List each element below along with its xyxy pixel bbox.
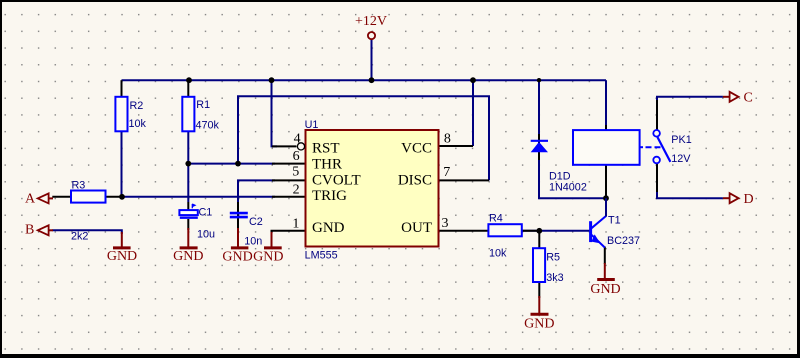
svg-text:6: 6	[293, 149, 300, 164]
svg-text:GND: GND	[524, 316, 554, 331]
svg-text:PK1: PK1	[671, 134, 691, 146]
pin R2 top	[121, 80, 123, 97]
svg-text:10n: 10n	[244, 236, 262, 248]
svg-text:GND: GND	[107, 249, 137, 264]
svg-text:GND: GND	[312, 220, 345, 236]
svg-text:RST: RST	[312, 140, 340, 156]
wire THR line	[188, 163, 275, 165]
pin R3 right	[106, 196, 123, 198]
ground U1 pin1	[264, 232, 282, 248]
svg-text:2: 2	[293, 183, 300, 198]
svg-text:GND: GND	[590, 282, 620, 297]
svg-text:C1: C1	[199, 207, 213, 219]
junction node bus-RST	[269, 77, 275, 83]
resistor R2	[115, 97, 127, 132]
pin relay coil bottom	[605, 165, 607, 198]
wire relay coil top	[605, 80, 607, 125]
svg-text:R3: R3	[72, 180, 86, 192]
pin U1 RST (4)	[272, 145, 297, 147]
svg-text:1: 1	[292, 217, 299, 232]
svg-text:C: C	[744, 91, 753, 106]
svg-text:5: 5	[292, 165, 299, 180]
resistor R1	[182, 97, 194, 132]
wire R2 bottom to TRIG node	[121, 131, 123, 197]
svg-text:R5: R5	[546, 252, 560, 264]
pin U1 DISC (7)	[439, 179, 490, 181]
pin switch top	[656, 100, 658, 130]
wire switch top to C port	[657, 97, 723, 129]
junction node bus-VCC	[470, 77, 476, 83]
resistor R5	[533, 248, 545, 282]
svg-text:THR: THR	[312, 156, 342, 172]
diode D1D	[531, 140, 548, 142]
svg-text:CVOLT: CVOLT	[312, 172, 361, 188]
ground C1	[180, 228, 198, 248]
wire RST riser	[272, 80, 278, 146]
wire DISC to THR riser	[238, 96, 489, 180]
wire switch bottom to D port	[657, 165, 723, 198]
pin C2 lead	[237, 202, 239, 230]
op-amp U1 LM555 body	[306, 130, 439, 247]
junction node bus-diode	[537, 78, 541, 82]
svg-text:D: D	[744, 192, 754, 207]
svg-text:GND: GND	[173, 249, 203, 264]
wire OUT to base	[522, 230, 590, 232]
svg-text:1N4002: 1N4002	[549, 182, 587, 194]
pin U1 THR (6)	[272, 163, 306, 165]
junction node bus-R1	[186, 77, 192, 83]
svg-text:VCC: VCC	[401, 140, 432, 156]
ground B	[113, 232, 131, 248]
pin switch bottom	[656, 164, 658, 193]
wire diode anode to collector node	[539, 158, 606, 198]
pin relay coil top	[605, 125, 607, 130]
pin R3 left	[52, 196, 71, 198]
svg-text:8: 8	[444, 131, 451, 146]
svg-text:3: 3	[442, 216, 449, 231]
ground C2	[231, 228, 249, 248]
pin U1 OUT (3)	[439, 230, 489, 232]
relay actuation dashed link	[640, 146, 643, 148]
pin R4 right to node	[522, 230, 540, 232]
svg-text:+12V: +12V	[355, 14, 387, 29]
relay PK1 coil box	[573, 130, 640, 165]
svg-text:U1: U1	[305, 119, 319, 131]
pin U1 VCC (8)	[439, 145, 474, 147]
RST inversion bubble	[297, 143, 304, 150]
junction node TRIG-R2	[119, 194, 125, 200]
capacitor C2	[230, 213, 248, 217]
svg-text:10k: 10k	[129, 118, 147, 130]
svg-text:10u: 10u	[197, 229, 215, 241]
pin R1 top	[187, 80, 189, 97]
svg-text:470k: 470k	[196, 120, 220, 132]
junction node bus +12V	[369, 77, 375, 83]
svg-text:TRIG: TRIG	[312, 188, 347, 204]
svg-text:R1: R1	[196, 99, 210, 111]
svg-text:GND: GND	[253, 249, 283, 264]
junction node THR-DISC	[235, 161, 241, 167]
svg-text:T1: T1	[608, 215, 621, 227]
ground R5	[531, 296, 549, 314]
pin R5 bottom	[538, 282, 540, 298]
svg-text:10k: 10k	[489, 248, 507, 260]
power port +12V	[368, 32, 375, 39]
pin diode lead	[538, 134, 540, 160]
svg-text:C2: C2	[249, 216, 263, 228]
pin U1 CVOLT (5)	[272, 179, 306, 181]
wire main +12V bus	[122, 79, 607, 81]
pin C1 bottom	[187, 219, 189, 230]
svg-text:B: B	[25, 223, 34, 238]
svg-text:DISC: DISC	[398, 172, 432, 188]
wire CVOLT to C2	[238, 180, 275, 202]
svg-text:R4: R4	[489, 213, 503, 225]
sheet border frame	[0, 0, 800, 2]
capacitor C1 (polarized)	[179, 210, 197, 215]
wire R1 bottom to THR node and C1	[187, 131, 189, 202]
svg-text:GND: GND	[222, 249, 252, 264]
pin U1 GND (1)	[272, 231, 306, 233]
relay switch contacts	[653, 130, 660, 137]
wire +12V drop	[371, 39, 373, 80]
transistor T1 BC237	[591, 216, 606, 248]
pin T1 emitter lead	[604, 247, 606, 265]
wire TRIG line	[122, 196, 275, 198]
ground emitter	[597, 263, 615, 280]
junction node collector	[603, 195, 609, 201]
svg-text:OUT: OUT	[401, 220, 432, 236]
wire B to ground	[52, 230, 122, 234]
svg-text:R2: R2	[130, 100, 144, 112]
resistor R4	[488, 224, 521, 236]
svg-text:3k3: 3k3	[546, 272, 563, 284]
junction node OUT-R5	[536, 228, 542, 234]
pin U1 TRIG (2)	[272, 196, 306, 198]
svg-text:A: A	[25, 192, 36, 207]
relay switch arm	[657, 137, 670, 162]
svg-text:12V: 12V	[671, 153, 691, 165]
junction node THR-R1	[185, 161, 191, 167]
pin R5 top	[538, 231, 540, 248]
wire VCC riser	[472, 80, 474, 146]
pin C1 top	[187, 202, 189, 210]
svg-text:7: 7	[443, 165, 450, 180]
svg-text:2k2: 2k2	[71, 231, 88, 243]
svg-text:LM555: LM555	[305, 250, 338, 262]
svg-text:BC237: BC237	[607, 235, 640, 247]
wire diode riser	[538, 80, 540, 135]
resistor R3	[71, 191, 106, 203]
